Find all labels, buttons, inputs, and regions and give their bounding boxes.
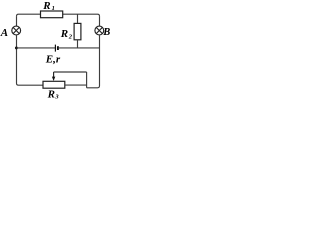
svg-text:R: R [47, 89, 55, 101]
svg-text:2: 2 [68, 33, 73, 40]
svg-text:3: 3 [54, 94, 59, 101]
wire right rail lower [87, 35, 100, 88]
wire slider horizontal [54, 71, 87, 73]
resistor R1 [41, 11, 63, 18]
svg-text:E,r: E,r [45, 54, 61, 66]
wire slider vertical [86, 72, 88, 88]
wire left rail upper [16, 16, 18, 26]
wire R2 top lead [77, 14, 79, 23]
wire R2 bottom lead [77, 40, 79, 48]
wire top-right corner [98, 14, 100, 16]
svg-text:R: R [60, 28, 68, 40]
lamp A [12, 26, 21, 35]
slider arrow [53, 72, 55, 77]
node junction dot [15, 46, 18, 49]
svg-text:R: R [42, 0, 50, 12]
lamp B [95, 26, 104, 35]
wire right rail upper [99, 16, 101, 26]
wire left rail lower [17, 35, 44, 85]
wire R3 right lead [65, 84, 87, 86]
wire battery branch right [59, 47, 100, 49]
svg-text:A: A [0, 27, 8, 39]
svg-text:1: 1 [52, 5, 55, 12]
wire battery branch left [17, 47, 56, 49]
wire top side [19, 13, 98, 15]
rheostat R3 [43, 81, 65, 88]
svg-text:B: B [102, 27, 110, 38]
battery E,r [54, 45, 56, 52]
wire top-left corner [17, 14, 19, 16]
resistor R2 [74, 23, 81, 39]
